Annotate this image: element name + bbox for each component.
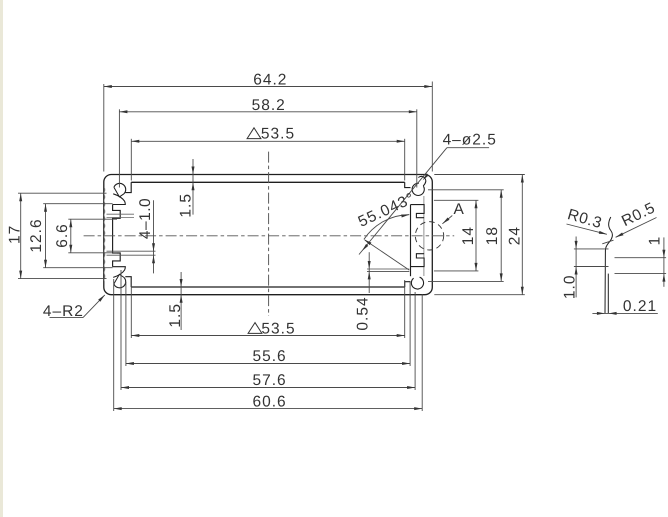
dimension 12.6: [28, 204, 113, 268]
svg-text:1.5: 1.5: [178, 193, 195, 218]
angle dimension 55.043: [356, 190, 418, 270]
svg-text:12.6: 12.6: [28, 218, 45, 252]
svg-text:0.21: 0.21: [623, 298, 657, 315]
left wall serration line: [103, 188, 106, 282]
svg-text:4–ø2.5: 4–ø2.5: [443, 131, 497, 148]
detail dimension 1: [615, 236, 667, 287]
top-left screw boss: [113, 182, 132, 204]
svg-text:1.5: 1.5: [167, 303, 184, 328]
bottom-left screw boss: [113, 267, 132, 288]
dimension 0.54: [354, 252, 409, 330]
dimension 18: [428, 190, 504, 282]
svg-text:64.2: 64.2: [253, 71, 287, 88]
left window edge strip: [0, 0, 3, 517]
svg-text:14: 14: [460, 226, 477, 245]
dimension 14: [434, 200, 479, 271]
dimension 24: [434, 175, 525, 295]
detail dimension 1.0: [562, 237, 609, 300]
dimension 55.6: [126, 282, 410, 366]
right inner wall upper hook: [411, 205, 425, 277]
detail dimension 0.21: [592, 298, 657, 315]
right wall inner face line: [423, 196, 425, 276]
detail leader R0.5: [616, 199, 658, 237]
leader 4-R2: [43, 295, 105, 320]
svg-text:6.6: 6.6: [54, 223, 71, 248]
detail circle A (dashed): [415, 222, 443, 250]
svg-text:60.6: 60.6: [253, 393, 287, 410]
svg-text:17: 17: [7, 225, 24, 244]
svg-text:55.6: 55.6: [253, 348, 287, 365]
svg-text:4–1.0: 4–1.0: [137, 198, 154, 239]
label A leader: [442, 201, 464, 224]
left inner wall with tabs: [113, 205, 121, 267]
svg-text:A: A: [454, 201, 465, 218]
bottom-right screw boss: [405, 277, 424, 289]
profile top inner wall line: [131, 181, 405, 183]
svg-text:1: 1: [647, 236, 664, 246]
horizontal centerline: [84, 235, 455, 237]
svg-text:R0.5: R0.5: [619, 199, 658, 230]
dimension 57.6: [121, 270, 415, 390]
svg-text:55.043°: 55.043°: [356, 190, 418, 231]
dimension 1.5 top: [178, 159, 195, 218]
svg-text:24: 24: [507, 226, 524, 245]
svg-text:57.6: 57.6: [253, 372, 287, 389]
leader 4-diam2.5: [359, 131, 497, 254]
detail leader R0.3: [566, 206, 607, 234]
vertical centerline: [268, 152, 270, 316]
svg-text:0.54: 0.54: [354, 296, 371, 330]
profile bottom inner wall line: [131, 286, 405, 288]
dimension 6.6: [54, 219, 117, 253]
slot lines 1.0 lower (4-1.0 feature): [107, 251, 156, 255]
dimension triangle-53.5 top: [131, 126, 404, 181]
svg-text:53.5: 53.5: [261, 126, 295, 143]
svg-text:58.2: 58.2: [252, 97, 286, 114]
dimension 60.6: [114, 279, 423, 411]
svg-text:1.0: 1.0: [562, 275, 579, 300]
dimension 4-1.0: [137, 198, 155, 274]
right inner wall lower hook: [411, 254, 425, 267]
profile outer outline: [104, 175, 433, 295]
top-right screw boss: [405, 176, 426, 195]
slot lines 1.0 upper: [107, 214, 135, 217]
svg-text:53.5: 53.5: [261, 320, 295, 337]
dimension 17: [7, 193, 107, 278]
dimension triangle-53.5 bottom: [131, 280, 404, 338]
svg-text:18: 18: [484, 226, 501, 245]
detail break line: [602, 217, 613, 313]
dimension 1.5 bottom: [167, 272, 184, 330]
dimension 64.2: [104, 71, 433, 171]
dimension 58.2: [119, 97, 416, 188]
